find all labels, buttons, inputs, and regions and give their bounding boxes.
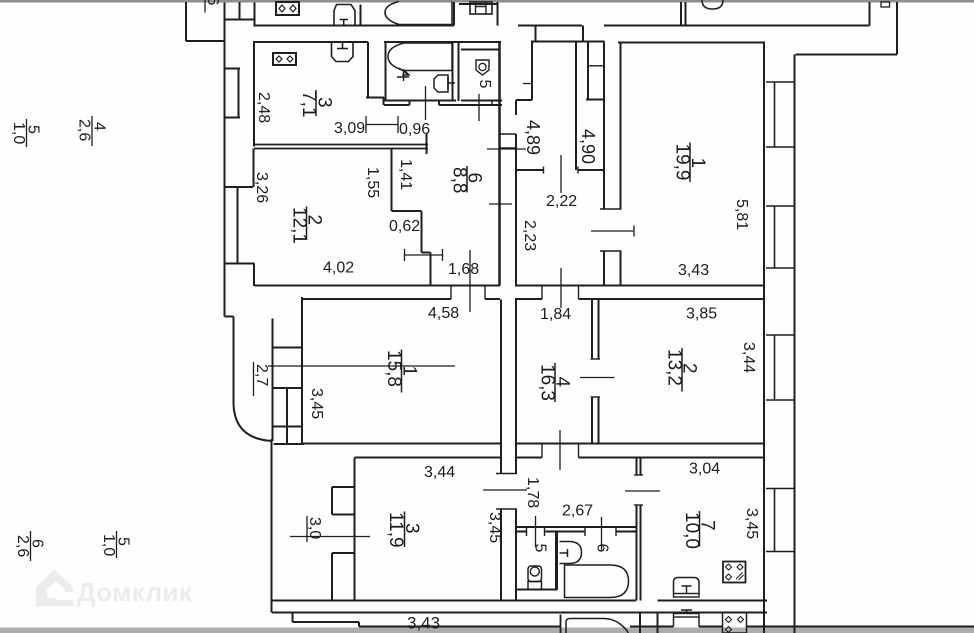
svg-text:3,44: 3,44 (424, 464, 455, 481)
svg-text:6: 6 (204, 0, 221, 6)
svg-text:4,90: 4,90 (578, 129, 598, 164)
svg-text:0,62: 0,62 (389, 218, 420, 235)
svg-text:2,6: 2,6 (76, 119, 93, 141)
svg-text:4,58: 4,58 (428, 305, 459, 322)
svg-text:3,45: 3,45 (743, 508, 760, 539)
svg-text:2,7: 2,7 (253, 364, 270, 386)
svg-text:1,84: 1,84 (540, 306, 571, 323)
svg-text:0,96: 0,96 (399, 121, 430, 138)
svg-text:3,04: 3,04 (689, 461, 720, 478)
svg-text:1,55: 1,55 (364, 167, 381, 198)
svg-text:2,6: 2,6 (14, 535, 31, 557)
svg-text:3,45: 3,45 (486, 512, 503, 543)
svg-text:2,67: 2,67 (562, 503, 593, 520)
svg-text:5: 5 (476, 80, 493, 89)
svg-text:4,89: 4,89 (523, 120, 543, 155)
svg-text:3,43: 3,43 (407, 614, 440, 633)
svg-text:3,44: 3,44 (740, 342, 757, 373)
svg-text:5,81: 5,81 (733, 199, 750, 230)
svg-text:1,0: 1,0 (10, 122, 27, 144)
svg-text:1,78: 1,78 (524, 477, 541, 508)
svg-text:3,0: 3,0 (306, 517, 323, 539)
svg-text:2,48: 2,48 (255, 92, 272, 123)
svg-text:3,26: 3,26 (253, 172, 270, 203)
svg-text:4,02: 4,02 (323, 260, 354, 277)
svg-text:6: 6 (594, 544, 611, 553)
svg-text:3,85: 3,85 (686, 306, 717, 323)
svg-text:3,09: 3,09 (334, 120, 365, 137)
svg-text:Домклик: Домклик (77, 577, 193, 607)
svg-text:3,43: 3,43 (678, 262, 709, 279)
svg-text:3,45: 3,45 (308, 388, 325, 419)
svg-text:1,0: 1,0 (100, 534, 117, 556)
svg-text:2,23: 2,23 (521, 220, 538, 251)
svg-text:1,68: 1,68 (448, 261, 479, 278)
svg-text:2,22: 2,22 (546, 193, 577, 210)
svg-text:5: 5 (532, 544, 549, 553)
svg-text:1,41: 1,41 (397, 159, 414, 190)
svg-text:11,9: 11,9 (385, 512, 406, 548)
